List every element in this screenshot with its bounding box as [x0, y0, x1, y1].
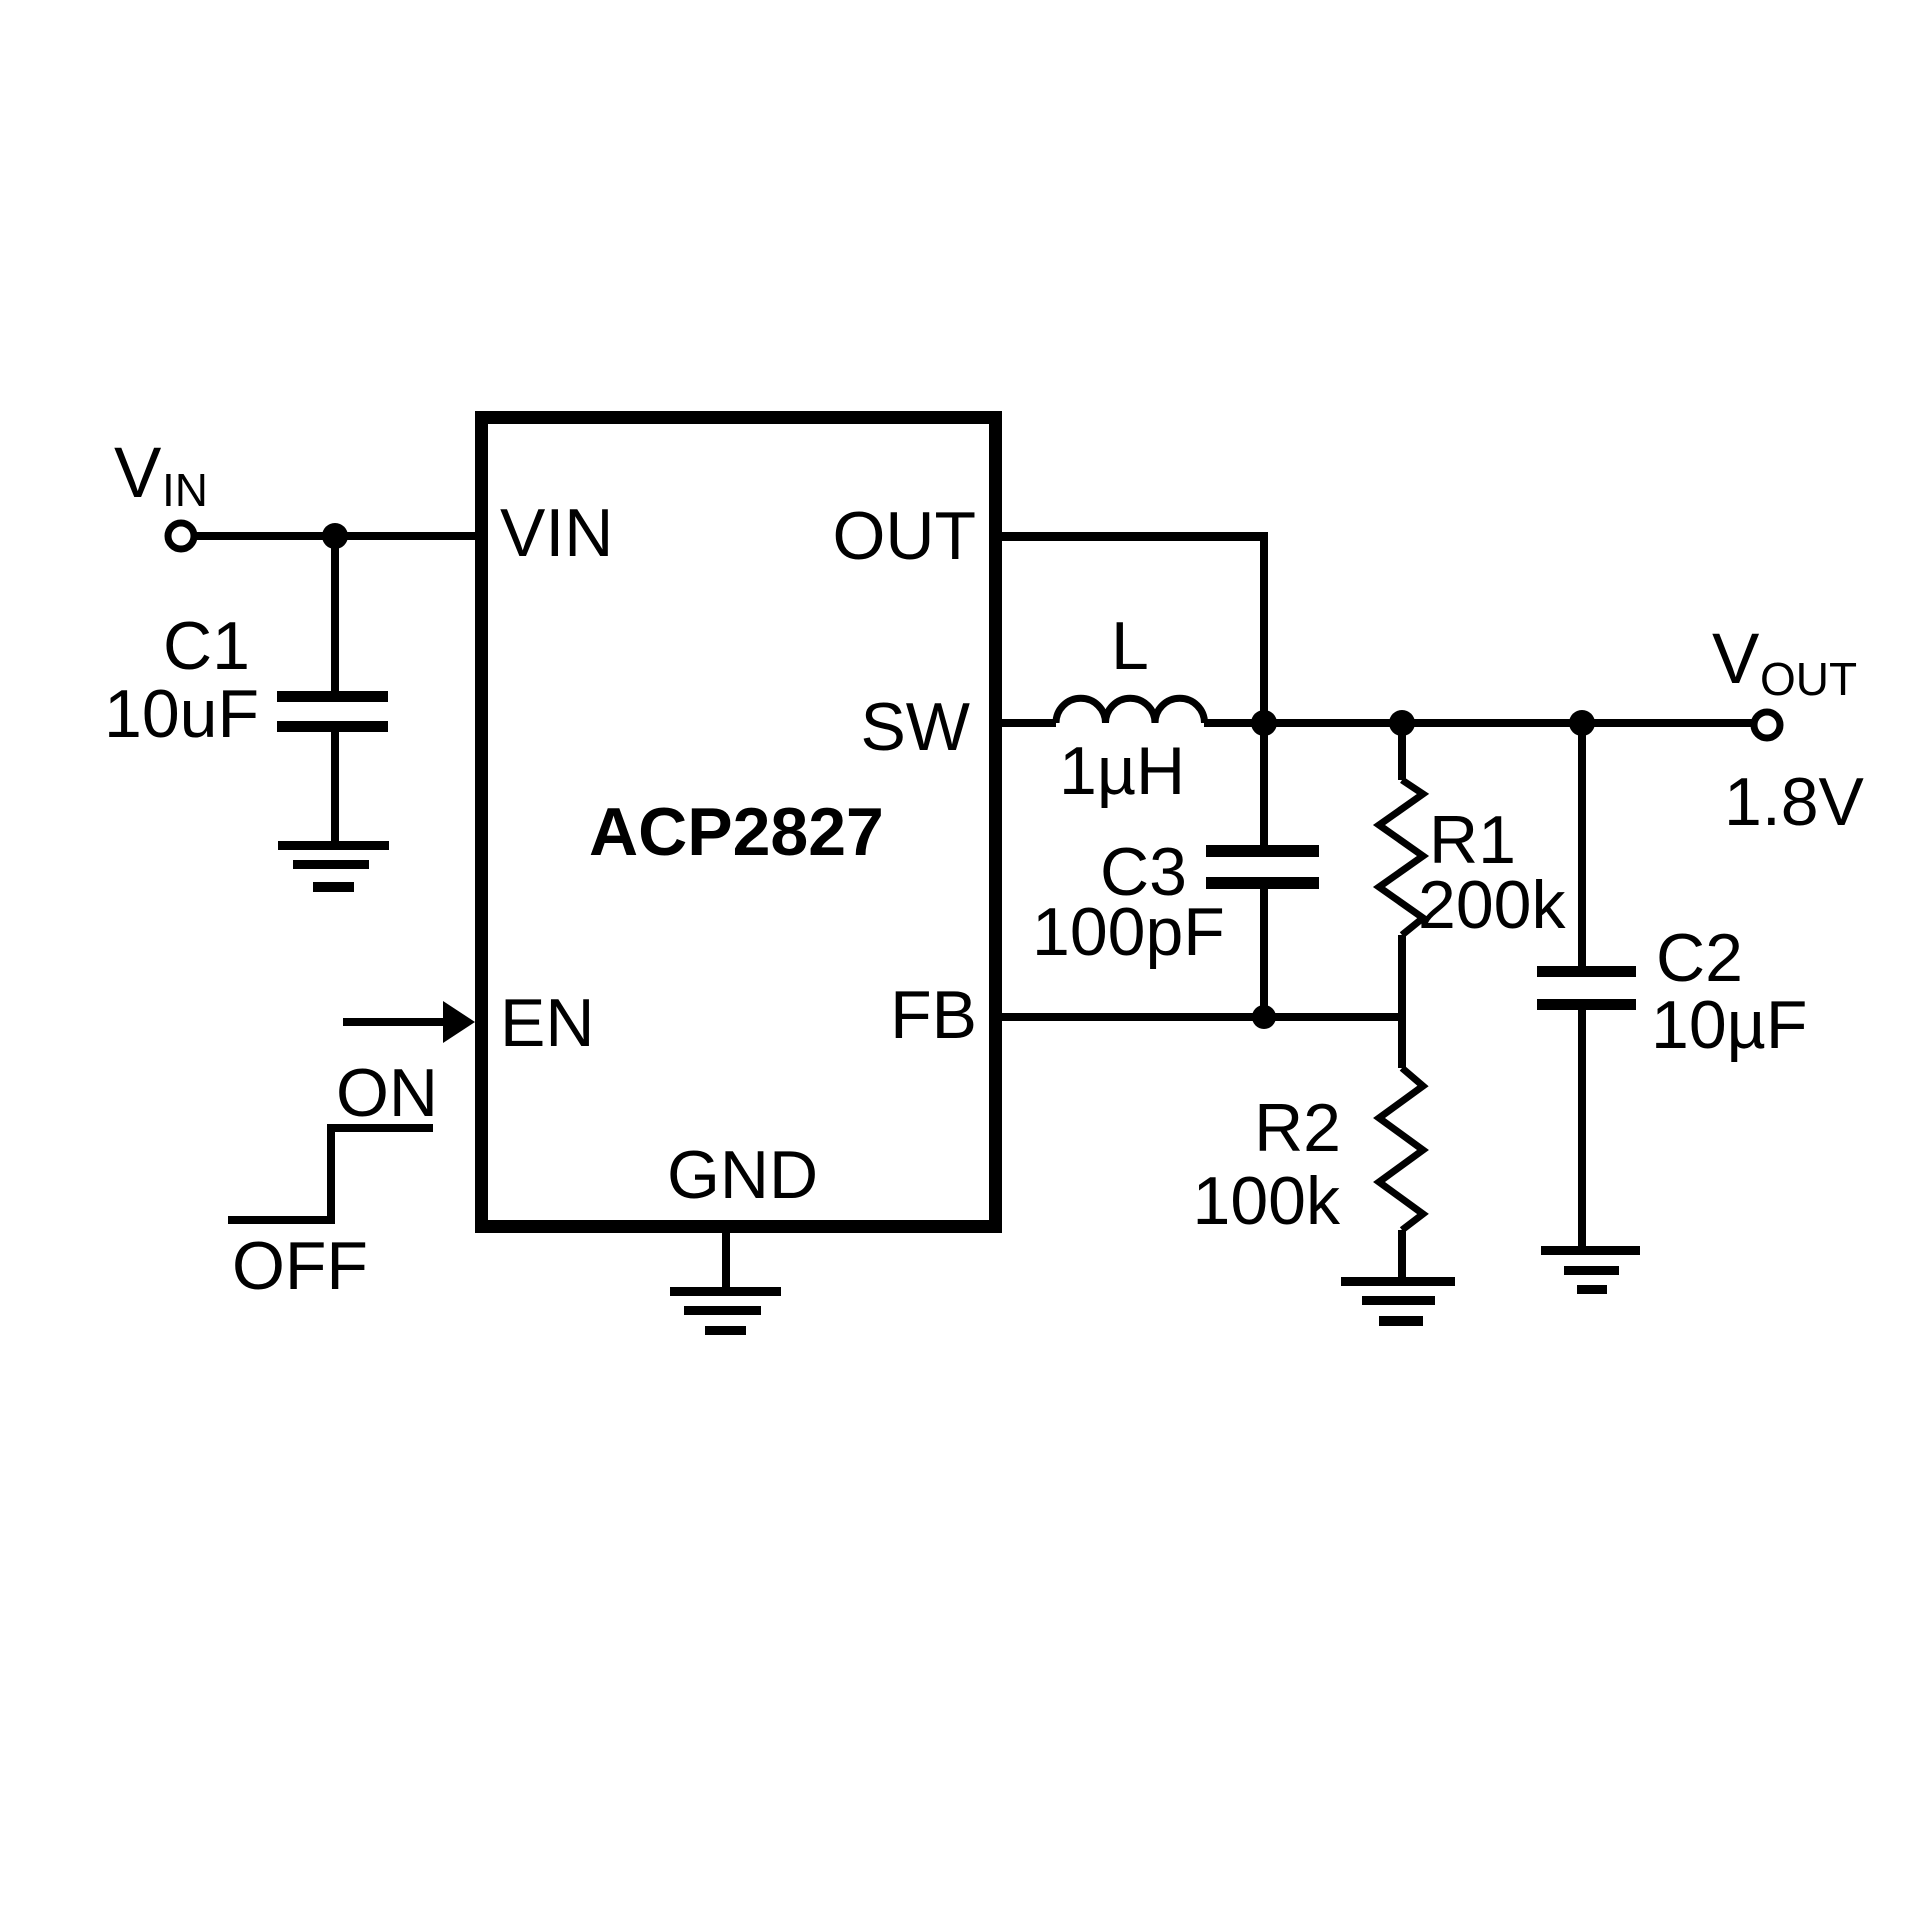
- svg-text:100pF: 100pF: [1032, 894, 1225, 970]
- wire R2 bottom: [1398, 1230, 1406, 1279]
- svg-text:EN: EN: [500, 985, 594, 1061]
- node junction SW/C3: [1251, 710, 1277, 736]
- node junction C2: [1569, 710, 1595, 736]
- svg-text:R2: R2: [1254, 1090, 1341, 1166]
- svg-text:SW: SW: [860, 689, 970, 765]
- ground C1: [278, 841, 389, 892]
- svg-text:GND: GND: [667, 1137, 818, 1213]
- wire VIN input: [194, 532, 475, 540]
- svg-text:V: V: [1712, 620, 1760, 699]
- svg-text:FB: FB: [890, 977, 977, 1053]
- capacitor C1: [277, 691, 388, 732]
- wire C1 bottom: [331, 731, 339, 843]
- resistor R2: [1379, 1068, 1423, 1230]
- wire OUT pin: [1002, 532, 1268, 723]
- svg-text:IN: IN: [162, 464, 208, 516]
- svg-text:OFF: OFF: [232, 1228, 368, 1304]
- capacitor C3: [1206, 845, 1319, 889]
- capacitor C2: [1537, 966, 1636, 1010]
- wire SW node to VOUT: [1204, 719, 1754, 727]
- wire GND pin: [722, 1233, 730, 1289]
- wire ON/OFF step waveform: [228, 1128, 433, 1220]
- svg-text:200k: 200k: [1418, 867, 1566, 943]
- wire EN arrow: [343, 1001, 475, 1043]
- svg-text:C1: C1: [163, 608, 250, 684]
- svg-text:1µH: 1µH: [1059, 733, 1185, 809]
- wire C3 bottom: [1260, 887, 1268, 1017]
- svg-text:10uF: 10uF: [104, 676, 259, 752]
- svg-text:OUT: OUT: [832, 498, 976, 574]
- svg-text:10µF: 10µF: [1651, 987, 1807, 1063]
- node VOUT terminal: [1754, 712, 1780, 738]
- svg-text:ON: ON: [336, 1055, 438, 1131]
- svg-text:C2: C2: [1656, 920, 1743, 996]
- svg-text:OUT: OUT: [1760, 653, 1857, 705]
- node junction R1: [1389, 710, 1415, 736]
- wire SW pin: [1002, 719, 1056, 727]
- wire R1 bottom: [1398, 935, 1406, 1017]
- svg-text:L: L: [1111, 608, 1149, 684]
- node junction FB/C3: [1252, 1005, 1276, 1029]
- wire R1 top: [1398, 723, 1406, 780]
- wire C1 top: [331, 536, 339, 691]
- ground GND pin: [670, 1287, 781, 1335]
- svg-text:V: V: [114, 434, 162, 513]
- wire FB pin: [1002, 1013, 1402, 1021]
- resistor R1: [1379, 780, 1423, 935]
- ground R2: [1341, 1277, 1455, 1326]
- wire C3 top: [1260, 723, 1268, 847]
- inductor L: [1056, 698, 1205, 723]
- wire C2 top: [1578, 723, 1586, 968]
- node junction at C1: [322, 523, 348, 549]
- svg-text:VIN: VIN: [500, 495, 613, 571]
- svg-text:100k: 100k: [1193, 1163, 1341, 1239]
- svg-text:1.8V: 1.8V: [1724, 764, 1865, 840]
- node VIN label: [114, 434, 208, 516]
- op-amp U1 ACP2827 IC body: [482, 418, 996, 1227]
- node VIN terminal: [168, 523, 194, 549]
- node VOUT label: [1712, 620, 1857, 705]
- svg-text:ACP2827: ACP2827: [589, 794, 884, 870]
- wire R2 top: [1398, 1017, 1406, 1068]
- wire C2 bottom: [1578, 1009, 1586, 1248]
- ground C2: [1541, 1246, 1640, 1294]
